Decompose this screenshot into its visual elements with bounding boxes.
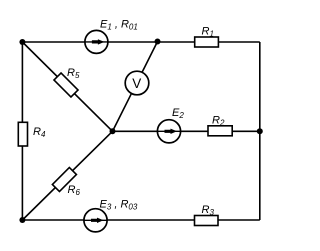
node bottom-left (19, 217, 25, 223)
source E3,R03 (84, 199, 138, 232)
node center (110, 128, 116, 134)
node top-left (19, 39, 25, 45)
wire left vertical (21, 42, 23, 220)
node middle-right (257, 128, 263, 134)
wire diagonal R6 branch (22, 131, 112, 220)
resistor R5 (54, 67, 80, 97)
wire bottom horizontal (22, 219, 259, 221)
wire diagonal R5 branch (22, 42, 112, 131)
wire top horizontal (22, 41, 259, 43)
source E1,R01 (85, 19, 138, 54)
wire right vertical (259, 42, 261, 220)
node top junction (155, 39, 161, 45)
svg-text:V: V (132, 76, 141, 91)
resistor R1 (195, 26, 219, 48)
source E2 (157, 107, 184, 143)
wire diagonal voltmeter branch (113, 42, 158, 132)
wire middle horizontal (113, 130, 260, 132)
resistor R2 (208, 115, 232, 136)
resistor R3 (195, 204, 219, 226)
voltmeter V (125, 71, 149, 95)
resistor R6 (52, 167, 80, 197)
resistor R4 (18, 122, 46, 146)
